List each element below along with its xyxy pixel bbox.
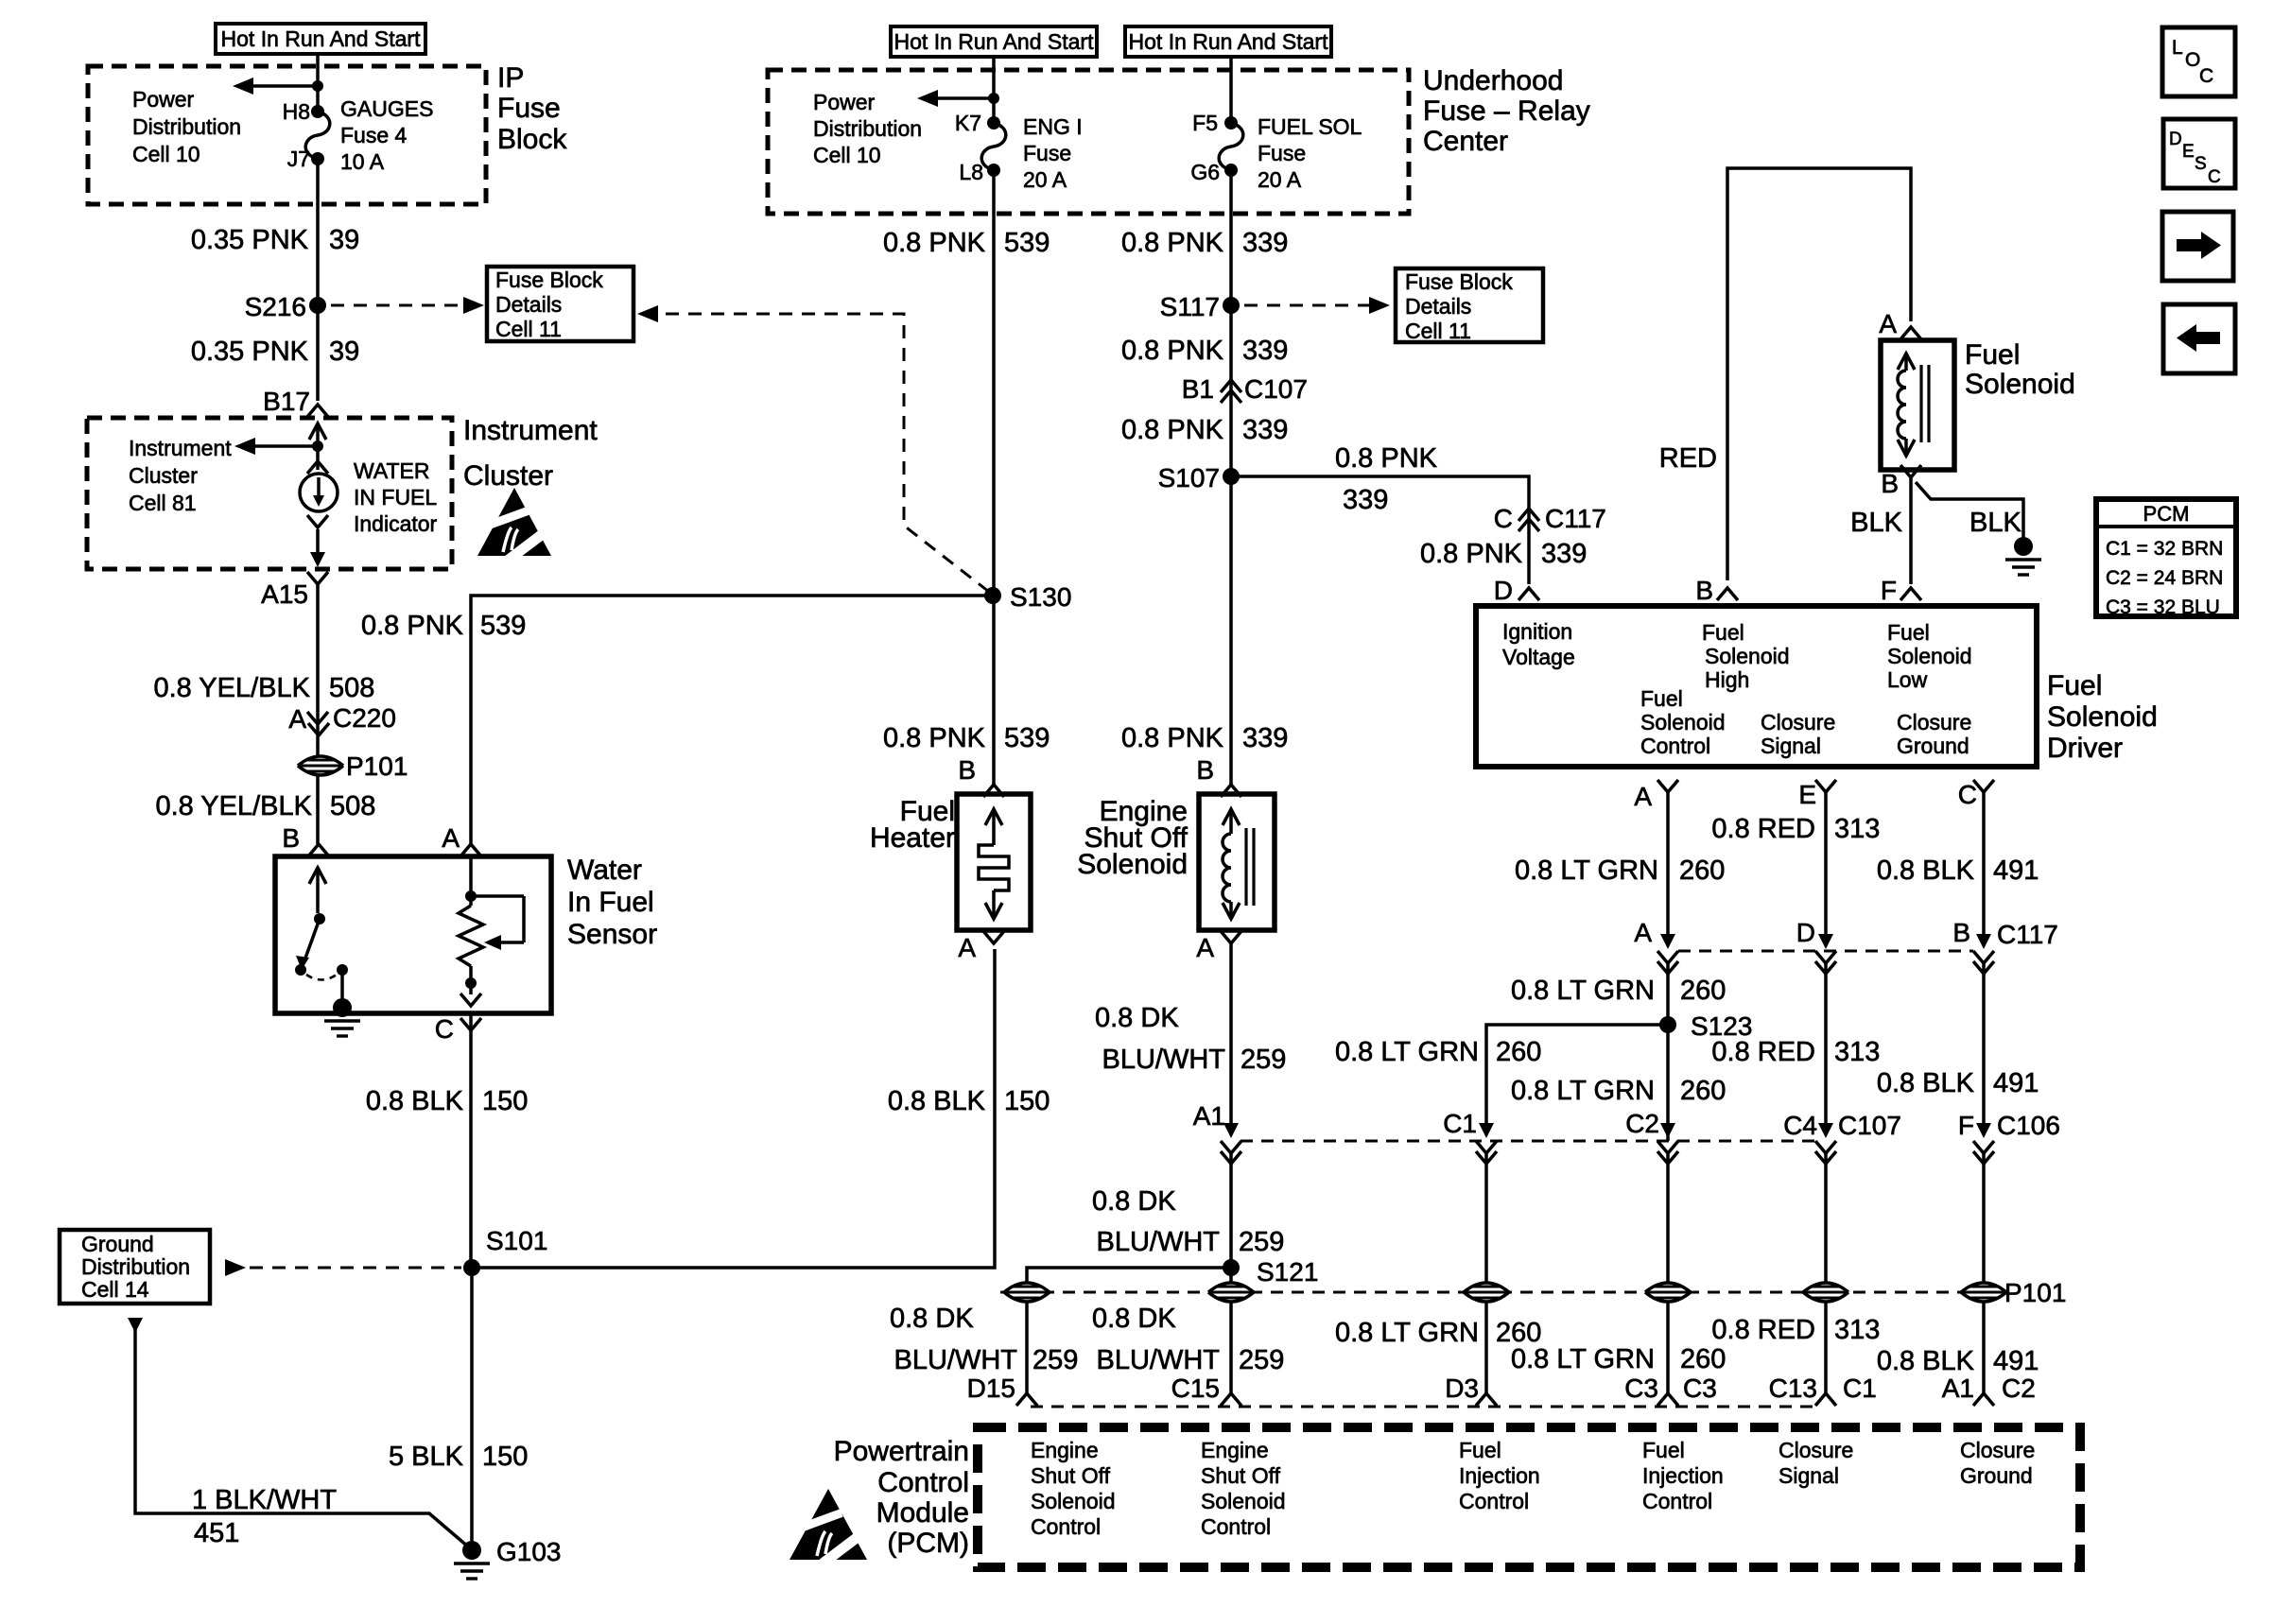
svg-text:339: 339 [1343,485,1388,515]
wire: 0.8 BLK 491 B to F [1982,963,1986,1134]
node S121 [1223,1257,1318,1287]
dashed box: IP Fuse Block [88,66,486,204]
splice lens P101 A1 wire [1961,1278,2066,1307]
pin A of fuel heater [958,931,1004,962]
pin B of fuel solenoid driver [1695,576,1738,605]
pin B17 of instrument cluster [263,387,328,417]
svg-text:0.8 PNK: 0.8 PNK [1335,443,1438,474]
svg-text:339: 339 [1242,723,1288,753]
dashed box: Powertrain Control Module PCM [978,1427,2080,1567]
svg-text:C4: C4 [1783,1111,1817,1140]
svg-text:0.8 LT GRN: 0.8 LT GRN [1335,1318,1479,1348]
svg-text:0.8 LT GRN: 0.8 LT GRN [1515,855,1658,886]
arrow: to instrument cluster cell 81 [234,438,318,455]
svg-text:0.8 LT GRN: 0.8 LT GRN [1511,976,1655,1006]
svg-text:PCM: PCM [2143,502,2190,526]
svg-text:Cell 81: Cell 81 [129,491,197,515]
svg-text:Solenoid: Solenoid [1031,1489,1116,1513]
svg-text:C: C [2208,167,2221,187]
wire: 0.8 PNK 339 S107 branch to fuel solenoid driver pin D [1231,476,1529,584]
label box: Hot In Run And Start (left) [216,24,425,54]
svg-text:Ground: Ground [81,1232,154,1256]
pin C of fuel solenoid driver (bottom) [1958,780,1994,809]
svg-text:Voltage: Voltage [1502,645,1575,669]
node S123 [1659,1011,1752,1041]
dashed connector row C117 [1678,950,1973,953]
wire: 0.8 RED 313 C4 to C13 [1824,1153,1828,1393]
splice lens C15 wire [1208,1283,1254,1302]
svg-text:P101: P101 [346,752,408,781]
component box: Water In Fuel Sensor [275,856,551,1013]
button: arrow left [2163,304,2235,373]
svg-text:Engine: Engine [1031,1438,1099,1462]
wire: 0.8 LT GRN 260 C1 to D3 [1484,1153,1488,1393]
svg-text:Details: Details [1405,294,1471,319]
dashed connector row above PCM [1031,1406,1815,1408]
svg-text:Cell 11: Cell 11 [495,317,562,341]
label: Closure Ground (driver) [1897,710,1971,758]
svg-text:D15: D15 [967,1373,1015,1403]
svg-text:B: B [1952,918,1970,947]
svg-text:0.8 DK: 0.8 DK [890,1304,974,1334]
svg-text:Cluster: Cluster [129,463,198,488]
svg-text:Center: Center [1423,126,1508,157]
svg-text:Hot In Run And Start: Hot In Run And Start [894,29,1095,54]
ground G103 [454,1537,562,1579]
svg-text:C15: C15 [1171,1373,1220,1403]
svg-text:FUEL SOL: FUEL SOL [1258,114,1362,139]
svg-text:Closure: Closure [1960,1438,2035,1462]
svg-text:C2: C2 [1625,1109,1659,1138]
svg-text:Ignition: Ignition [1502,619,1572,644]
svg-text:F: F [1958,1111,1974,1140]
svg-text:0.8 DK: 0.8 DK [1092,1304,1176,1334]
svg-text:Signal: Signal [1761,734,1821,758]
label: 0.8 PNK 539 (top) [883,228,1050,258]
svg-text:508: 508 [329,673,374,703]
box: Fuse Block Details Cell 11 (left) [487,267,633,341]
svg-text:D: D [1796,918,1815,947]
label box: Hot In Run And Start (middle) [891,26,1097,57]
label: 0.8 LT GRN 260 (branch C1) [1335,1037,1541,1067]
svg-text:Fuse Block: Fuse Block [1405,269,1513,294]
svg-text:Closure: Closure [1761,710,1835,734]
svg-text:BLK: BLK [1850,508,1902,538]
svg-text:0.8 BLK: 0.8 BLK [1877,1346,1975,1376]
pin D15 of PCM [967,1373,1037,1406]
svg-text:C1: C1 [1843,1373,1877,1403]
dashed connector row (C1 C2 C4) [1241,1140,1823,1143]
svg-text:ENG I: ENG I [1023,114,1083,139]
svg-text:Fuel: Fuel [1459,1438,1501,1462]
pin A15 of instrument cluster [261,572,328,609]
svg-text:Solenoid: Solenoid [1640,710,1726,734]
svg-text:539: 539 [1004,228,1050,258]
indicator lamp: WATER IN FUEL [300,461,338,567]
svg-text:0.35 PNK: 0.35 PNK [191,225,309,255]
svg-text:260: 260 [1680,1076,1726,1106]
label: Fuel Heater [870,796,955,854]
svg-text:10 A: 10 A [340,149,385,174]
svg-text:O: O [2185,49,2200,71]
label: Closure Signal (PCM) [1778,1438,1853,1488]
svg-text:High: High [1705,667,1749,692]
svg-text:A: A [958,933,976,962]
button: LOC [2162,27,2235,96]
label: 0.8 PNK 339 (second) [1121,336,1288,366]
svg-text:39: 39 [329,337,359,367]
label: 0.8 LT GRN 260 (D3) [1335,1318,1541,1348]
svg-text:Fuse 4: Fuse 4 [340,123,408,147]
label: IP Fuse Block [497,62,567,155]
esd symbol: PCM [788,1489,873,1564]
label: 0.8 PNK 339 (third) [1121,415,1288,445]
svg-text:Instrument: Instrument [463,415,598,446]
wire: 0.35 PNK 39 from fuse 4 to B17 [316,159,320,401]
svg-text:Power: Power [132,87,195,112]
svg-text:5 BLK: 5 BLK [389,1442,464,1472]
wire: RED jumper driver pin B to fuel solenoid pin A [1727,168,1911,580]
svg-text:Solenoid: Solenoid [1705,644,1790,668]
svg-text:S107: S107 [1158,463,1220,492]
svg-text:B: B [1881,469,1899,498]
label: Closure Ground (PCM) [1960,1438,2035,1488]
svg-text:491: 491 [1993,1346,2039,1376]
svg-text:Fuse: Fuse [1023,141,1071,165]
fuse ENG I Fuse 20A (pins K7/L8) [955,111,1083,192]
svg-text:C107: C107 [1244,374,1308,404]
wire: BLK fuel solenoid B to driver pin F [1909,477,1913,584]
node S117 [1160,292,1240,321]
pin D3 of PCM [1445,1373,1497,1406]
svg-text:339: 339 [1242,228,1288,258]
svg-text:0.8 DK: 0.8 DK [1092,1186,1176,1217]
svg-text:C117: C117 [1545,504,1606,533]
label: 0.8 RED 313 (driver E) [1711,814,1880,844]
svg-text:C2 = 24 BRN: C2 = 24 BRN [2106,567,2223,589]
svg-text:150: 150 [482,1086,528,1116]
label: 0.8 LT GRN 260 (above S123) [1511,976,1726,1006]
svg-text:C1: C1 [1443,1109,1477,1138]
svg-text:Heater: Heater [870,822,955,854]
pin A1 at connector row [1193,1101,1241,1164]
splice lens C3 wire [1645,1283,1691,1302]
svg-text:0.8 YEL/BLK: 0.8 YEL/BLK [155,791,312,821]
label: Power Distribution Cell 10 (IP fuse block) [132,87,241,166]
solenoid coil symbol (engine shut off) [1223,809,1254,919]
svg-text:A: A [288,704,306,734]
wire: 0.8 PNK 539 fuse ENG I down to fuel heater [992,170,996,786]
svg-text:Cell 10: Cell 10 [813,143,881,167]
svg-text:C106: C106 [1997,1111,2060,1140]
wire: 0.8 RED 313 driver E to C117 row [1824,792,1828,945]
svg-text:L: L [2172,37,2183,59]
svg-text:P101: P101 [2004,1278,2066,1307]
svg-text:S121: S121 [1257,1257,1318,1287]
wire: 0.8 DK BLU/WHT 259 solenoid to A1 [1229,943,1233,1134]
svg-text:0.8 PNK: 0.8 PNK [1121,336,1224,366]
svg-text:Driver: Driver [2047,733,2123,764]
svg-text:BLU/WHT: BLU/WHT [1102,1045,1226,1075]
pin C13 of PCM connector C1 [1769,1373,1877,1406]
svg-text:A: A [1634,918,1652,947]
label: Fuel Injection Control (C3) [1642,1438,1724,1513]
svg-text:A: A [1879,309,1897,338]
svg-text:Hot In Run And Start: Hot In Run And Start [221,26,422,51]
label: Engine Shut Off Solenoid Control (C15) [1201,1438,1286,1539]
wire: hot feed into IP fuse block [316,54,320,112]
svg-text:260: 260 [1679,855,1725,886]
esd symbol: instrument cluster [476,488,557,560]
svg-text:491: 491 [1993,855,2039,886]
svg-text:0.8 PNK: 0.8 PNK [1121,228,1224,258]
pin B of engine shut off solenoid [1196,755,1241,797]
splice row dashed line P101 [1000,1291,1997,1294]
pin C of water in fuel sensor [435,1014,481,1044]
wire: 0.8 LT GRN 260 C117 to S123 [1666,963,1670,1141]
connector row pins C1 C2 C4 C107 F C106 [1443,1109,2060,1164]
svg-text:RED: RED [1659,443,1717,474]
fuse F GAUGES Fuse 4 10A (pins H8/J7) [283,96,434,174]
svg-text:0.8 PNK: 0.8 PNK [361,611,464,641]
pin A of fuel solenoid [1879,309,1921,339]
label: 0.8 BLK 491 (to F) [1877,1068,2039,1098]
pin C3 of PCM connector C3 [1624,1373,1717,1406]
svg-text:Control: Control [1642,1489,1712,1513]
svg-text:C117: C117 [1997,920,2058,949]
svg-text:Fuel: Fuel [1887,620,1930,645]
heater element symbol [979,809,1009,919]
svg-text:Fuel: Fuel [1702,620,1744,645]
label: 1 BLK/WHT 451 [192,1485,337,1548]
label: 0.8 DK BLU/WHT 259 (D15) [890,1304,1078,1375]
svg-text:IP: IP [497,62,524,94]
svg-text:Indicator: Indicator [354,511,438,536]
fuse FUEL SOL Fuse 20A (pins F5/G6) [1190,57,1362,192]
wire: 0.8 BLK 491 F to A1 [1982,1153,1986,1393]
sense resistor inside water in fuel sensor [459,856,524,1006]
svg-text:Fuel: Fuel [1640,686,1683,711]
dashed arrow: S216 to Fuse Block Details [331,297,484,314]
wire: 1 BLK/WHT 451 ground distribution branch [128,1318,469,1547]
label: 0.8 BLK 150 (fuel heater) [888,1086,1050,1116]
label: Fuel Solenoid Low [1887,620,1972,692]
svg-text:0.8 BLK: 0.8 BLK [366,1086,464,1116]
svg-text:Distribution: Distribution [81,1254,190,1279]
svg-text:260: 260 [1680,976,1726,1006]
node S130 [984,582,1071,612]
svg-text:339: 339 [1242,415,1288,445]
svg-text:Distribution: Distribution [132,114,241,139]
svg-text:WATER: WATER [354,458,430,483]
svg-text:In Fuel: In Fuel [567,887,654,918]
box: Fuse Block Details Cell 11 (right) [1396,268,1543,343]
svg-text:Control: Control [877,1467,969,1498]
svg-text:0.8 PNK: 0.8 PNK [883,228,986,258]
dashed box: Instrument Cluster [87,418,452,569]
svg-text:Low: Low [1887,667,1928,692]
component box: Fuel Heater [957,794,1031,930]
switch inside water in fuel sensor [295,868,352,1017]
label: Instrument Cluster (title) [463,415,598,492]
svg-text:313: 313 [1834,814,1880,844]
svg-text:Cluster: Cluster [463,460,553,492]
pin F of fuel solenoid driver [1881,576,1921,605]
label: 0.8 LT GRN 260 (to C2) [1511,1076,1726,1106]
svg-text:F5: F5 [1192,111,1218,135]
svg-text:C107: C107 [1838,1111,1901,1140]
wire: S121 branch to pin D15 [1027,1268,1231,1393]
label: Power Distribution Cell 10 (underhood) [813,90,922,167]
svg-text:0.8 BLK: 0.8 BLK [1877,855,1975,886]
dashed box: Underhood Fuse - Relay Center [768,70,1409,214]
svg-text:539: 539 [1004,723,1050,753]
wire: 0.8 LT GRN 260 C2 to C3 [1666,1153,1670,1393]
pin B of fuel solenoid [1881,465,1921,498]
component box: Engine Shut Off Solenoid [1199,794,1275,930]
svg-text:H8: H8 [283,99,310,124]
svg-text:Signal: Signal [1778,1463,1839,1488]
label: 0.8 LT GRN 260 (driver A) [1515,855,1725,886]
splice lens C13 wire [1803,1283,1848,1302]
svg-text:Shut Off: Shut Off [1201,1463,1281,1488]
svg-text:Solenoid: Solenoid [1965,369,2075,400]
svg-text:L8: L8 [959,160,983,184]
svg-text:Underhood: Underhood [1423,65,1563,96]
svg-text:BLK: BLK [1969,508,2021,538]
svg-text:0.8 PNK: 0.8 PNK [883,723,986,753]
dashed arrow: S117 to Fuse Block Details (right) [1244,297,1390,314]
svg-text:B: B [1695,576,1713,605]
label: 0.35 PNK 39 (upper) [191,225,359,255]
svg-text:339: 339 [1242,336,1288,366]
svg-text:Power: Power [813,90,876,114]
svg-text:Fuel: Fuel [1642,1438,1685,1462]
wire: S123 branch to pin C1 [1486,1025,1668,1134]
svg-text:Control: Control [1201,1514,1271,1539]
wire: 0.8 YEL/BLK 508 from A15 to C220 [316,584,320,844]
svg-text:Cell 10: Cell 10 [132,142,200,166]
svg-text:0.8 LT GRN: 0.8 LT GRN [1335,1037,1479,1067]
label: 0.8 DK BLU/WHT 259 (S121) [1092,1186,1284,1257]
connector C220 pin A [288,703,396,735]
wire: 0.8 LT GRN 260 driver A to C117 row [1666,792,1670,945]
svg-text:B: B [282,823,300,853]
svg-text:D: D [1494,576,1513,605]
wire: S130 branch to water in fuel sensor pin A [471,596,993,844]
ground symbol inside sensor [324,1021,360,1036]
svg-text:0.35 PNK: 0.35 PNK [191,337,309,367]
label: 0.8 PNK 339 (top) [1121,228,1288,258]
svg-text:451: 451 [194,1518,239,1548]
svg-text:Cell 11: Cell 11 [1405,319,1471,343]
svg-text:Powertrain: Powertrain [834,1436,969,1467]
label: Fuel Injection Control (D3) [1459,1438,1540,1513]
svg-text:C1 = 32 BRN: C1 = 32 BRN [2106,538,2223,560]
svg-text:C220: C220 [333,703,396,733]
label: Fuel Solenoid Control [1640,686,1726,758]
svg-text:259: 259 [1239,1227,1284,1257]
svg-text:S216: S216 [245,292,306,321]
wire: hot feed into underhood center [992,57,996,123]
node S216 [245,292,326,321]
pin A of engine shut off solenoid [1196,931,1241,962]
svg-text:Fuse Block: Fuse Block [495,268,603,292]
splice lens D3 wire [1464,1283,1509,1302]
svg-text:260: 260 [1496,1037,1541,1067]
svg-text:A: A [442,823,460,853]
svg-text:C: C [2199,65,2213,87]
svg-text:B: B [1196,755,1214,785]
label: 0.8 YEL/BLK 508 (upper) [153,673,374,703]
svg-text:GAUGES: GAUGES [340,96,433,121]
svg-text:Hot In Run And Start: Hot In Run And Start [1129,29,1329,54]
svg-text:S101: S101 [486,1226,547,1255]
wire: 0.8 BLK 491 driver C to C117 row [1982,792,1986,945]
svg-text:Sensor: Sensor [567,919,657,950]
pin B of fuel heater [958,755,1004,797]
node S101 [463,1226,547,1276]
svg-text:259: 259 [1032,1345,1078,1375]
svg-text:Solenoid: Solenoid [1887,644,1972,668]
pin A of fuel solenoid driver (bottom) [1634,780,1678,811]
component box: Fuel Solenoid Driver [1476,606,2037,767]
svg-text:C2: C2 [2002,1373,2036,1403]
wire: BLK fuel solenoid to ground [1916,482,2023,539]
svg-text:C: C [1494,504,1513,533]
svg-text:Injection: Injection [1459,1463,1540,1488]
label: 0.8 BLK 491 (A1) [1877,1346,2039,1376]
svg-text:150: 150 [482,1442,528,1472]
svg-text:0.8 PNK: 0.8 PNK [1121,415,1224,445]
svg-text:0.8 LT GRN: 0.8 LT GRN [1511,1076,1655,1106]
svg-text:Block: Block [497,124,567,155]
ground at fuel solenoid [2005,537,2041,575]
svg-text:C3: C3 [1624,1373,1658,1403]
component box: Fuel Solenoid [1881,340,1954,470]
dashed arrow: ground distribution to S101 [225,1259,461,1276]
svg-text:0.8 LT GRN: 0.8 LT GRN [1511,1344,1655,1374]
svg-text:1 BLK/WHT: 1 BLK/WHT [192,1485,337,1515]
svg-text:A15: A15 [261,579,308,609]
svg-text:Fuel: Fuel [2047,670,2102,701]
label: Engine Shut Off Solenoid Control (D15) [1031,1438,1116,1539]
svg-text:E: E [2182,142,2195,162]
label: 0.8 PNK 339 (branch horizontal) [1335,443,1438,515]
label: Fuel Solenoid Driver [2047,670,2158,764]
connector P101 pass-through (left) [298,752,408,781]
svg-text:A1: A1 [1942,1373,1974,1403]
label box: Hot In Run And Start (right) [1125,26,1331,57]
svg-text:B: B [958,755,976,785]
svg-text:C13: C13 [1769,1373,1817,1403]
svg-text:BLU/WHT: BLU/WHT [894,1345,1018,1375]
svg-text:A: A [1196,933,1214,962]
svg-text:Closure: Closure [1778,1438,1853,1462]
svg-text:S: S [2195,154,2207,174]
svg-text:Instrument: Instrument [129,436,232,460]
svg-text:A1: A1 [1193,1101,1225,1131]
connector C107 pin B1 [1182,374,1308,404]
svg-text:Control: Control [1459,1489,1529,1513]
svg-text:20 A: 20 A [1023,167,1067,192]
svg-text:K7: K7 [955,111,981,135]
pin C15 of PCM [1171,1373,1241,1406]
label: 0.8 YEL/BLK 508 (lower) [155,791,375,821]
pin B of water in fuel sensor [282,823,329,856]
svg-text:Solenoid: Solenoid [1201,1489,1286,1513]
svg-text:D3: D3 [1445,1373,1479,1403]
